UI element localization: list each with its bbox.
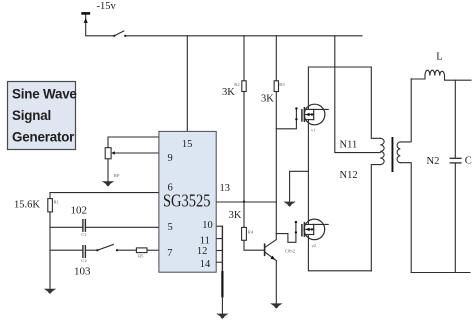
- svg-text:N2: N2: [427, 156, 440, 167]
- svg-text:R1: R1: [54, 200, 60, 205]
- svg-text:R2: R2: [234, 82, 240, 87]
- svg-text:L: L: [436, 52, 442, 63]
- svg-text:Signal: Signal: [12, 108, 51, 123]
- svg-text:3K: 3K: [261, 93, 274, 104]
- svg-text:RP: RP: [114, 173, 120, 178]
- svg-text:SG3525: SG3525: [163, 191, 211, 211]
- svg-text:C2: C2: [81, 258, 87, 263]
- svg-text:R4: R4: [248, 230, 254, 235]
- svg-text:10: 10: [202, 220, 213, 231]
- svg-text:Generator: Generator: [12, 130, 75, 145]
- svg-text:102: 102: [71, 205, 88, 217]
- svg-text:-15v: -15v: [97, 1, 117, 12]
- svg-text:5: 5: [168, 222, 173, 233]
- svg-text:C: C: [465, 156, 472, 167]
- svg-text:103: 103: [74, 265, 91, 277]
- svg-text:7: 7: [167, 248, 172, 259]
- svg-text:N11: N11: [340, 139, 358, 150]
- svg-text:v1: v1: [311, 128, 316, 133]
- svg-text:15.6K: 15.6K: [14, 199, 40, 210]
- svg-text:R3: R3: [279, 82, 285, 87]
- svg-text:Sine Wave: Sine Wave: [12, 87, 77, 102]
- svg-text:3K: 3K: [229, 210, 242, 221]
- svg-text:C1: C1: [81, 232, 87, 237]
- svg-text:14: 14: [200, 259, 211, 270]
- svg-text:15: 15: [182, 139, 193, 150]
- svg-text:N12: N12: [340, 170, 358, 181]
- svg-text:v2: v2: [312, 243, 317, 248]
- svg-text:C8S2: C8S2: [285, 248, 296, 253]
- svg-text:3K: 3K: [222, 87, 235, 98]
- svg-text:13: 13: [220, 183, 231, 194]
- svg-text:R5: R5: [138, 253, 144, 258]
- svg-text:12: 12: [197, 246, 208, 257]
- svg-text:11: 11: [200, 236, 210, 247]
- svg-text:9: 9: [168, 153, 173, 164]
